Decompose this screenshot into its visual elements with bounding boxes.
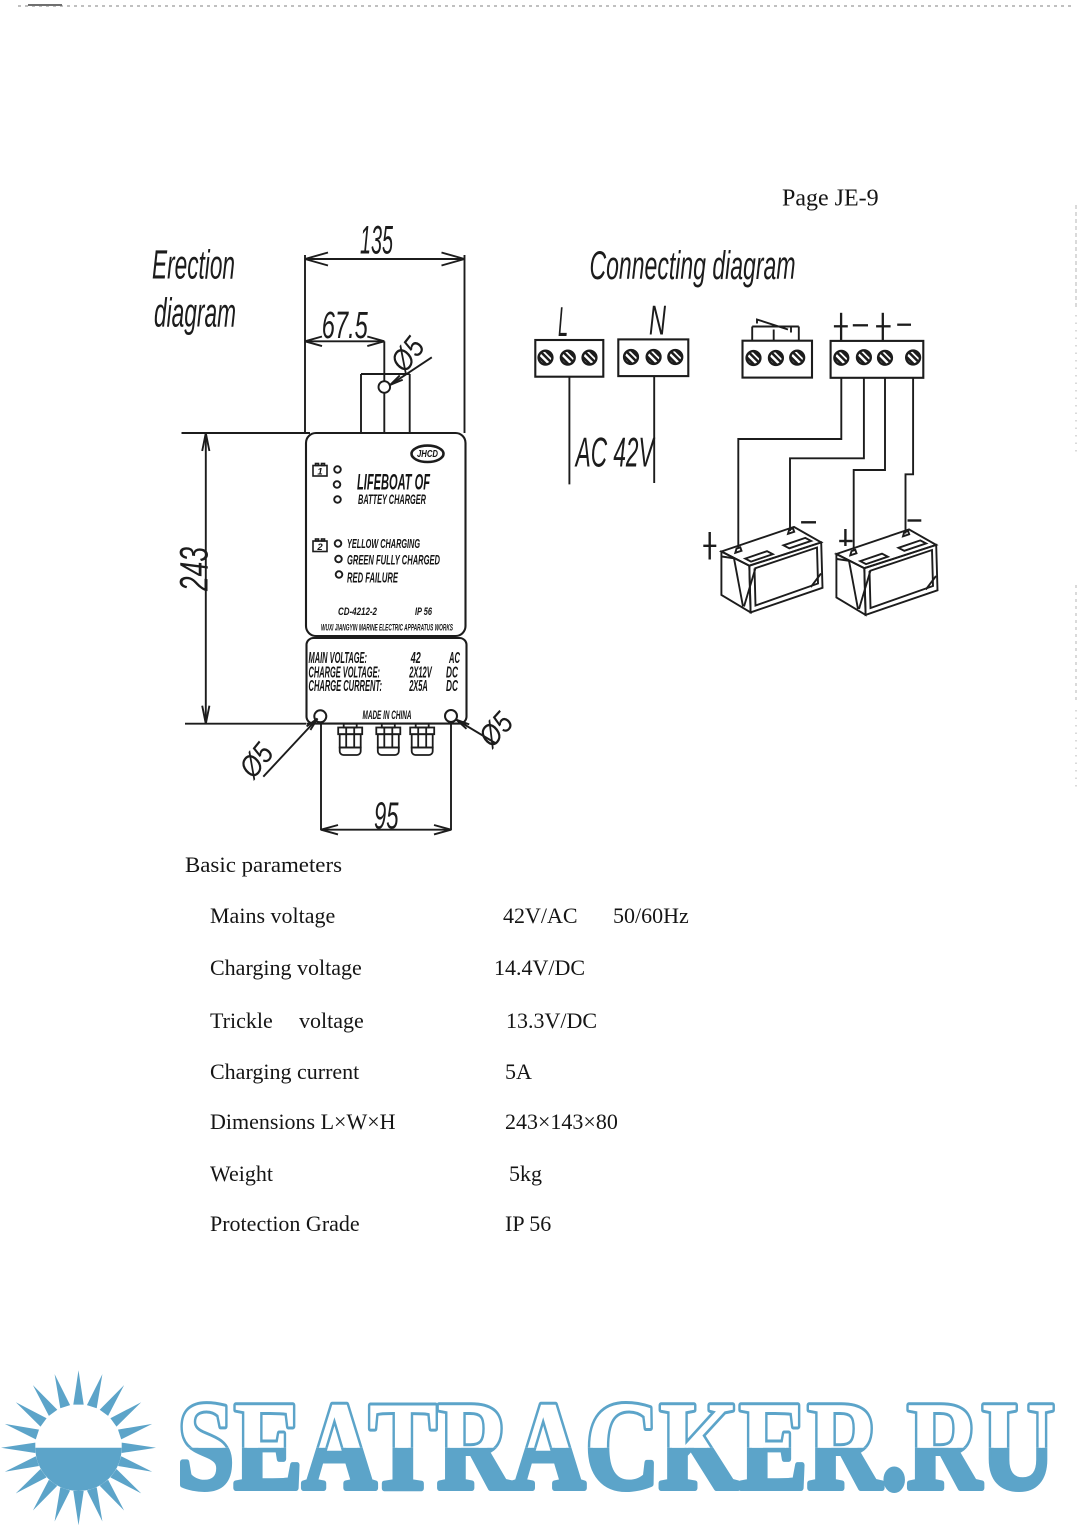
- svg-text:WUXI JIANGYIN MARINE ELECTRIC: WUXI JIANGYIN MARINE ELECTRIC APPARATUS …: [321, 623, 453, 634]
- svg-text:JHCD: JHCD: [417, 449, 438, 460]
- svg-text:DC: DC: [446, 678, 458, 695]
- svg-text:Weight: Weight: [210, 1161, 273, 1186]
- svg-text:RED FAILURE: RED FAILURE: [347, 570, 399, 587]
- svg-text:135: 135: [360, 219, 393, 263]
- svg-text:67.5: 67.5: [322, 305, 369, 347]
- svg-text:Charging current: Charging current: [210, 1059, 359, 1084]
- svg-text:YELLOW CHARGING: YELLOW CHARGING: [347, 537, 420, 551]
- svg-text:13.3V/DC: 13.3V/DC: [506, 1008, 597, 1033]
- svg-text:Ø5: Ø5: [233, 737, 281, 785]
- svg-text:AC 42V: AC 42V: [574, 429, 656, 476]
- svg-text:Erection: Erection: [152, 242, 235, 288]
- svg-text:Connecting diagram: Connecting diagram: [590, 244, 796, 288]
- svg-text:BATTEY CHARGER: BATTEY CHARGER: [358, 491, 426, 507]
- svg-text:2X5A: 2X5A: [409, 678, 428, 695]
- svg-text:5kg: 5kg: [509, 1161, 542, 1186]
- svg-text:42V/AC: 42V/AC: [503, 903, 578, 928]
- svg-text:IP 56: IP 56: [415, 606, 433, 618]
- svg-text:CHARGE CURRENT:: CHARGE CURRENT:: [309, 678, 383, 695]
- svg-text:95: 95: [374, 795, 399, 837]
- svg-text:243: 243: [173, 547, 217, 592]
- svg-text:50/60Hz: 50/60Hz: [613, 903, 689, 928]
- svg-text:Page JE-9: Page JE-9: [782, 186, 879, 212]
- svg-text:GREEN FULLY CHARGED: GREEN FULLY CHARGED: [347, 552, 440, 568]
- svg-text:CD-4212-2: CD-4212-2: [338, 606, 377, 618]
- svg-text:Dimensions L×W×H: Dimensions L×W×H: [210, 1109, 396, 1134]
- svg-text:Basic parameters: Basic parameters: [185, 852, 342, 877]
- svg-text:14.4V/DC: 14.4V/DC: [494, 955, 585, 980]
- svg-text:MADE IN CHINA: MADE IN CHINA: [363, 710, 412, 722]
- svg-text:L: L: [558, 298, 568, 345]
- svg-text:Mains voltage: Mains voltage: [210, 903, 335, 928]
- svg-text:Ø5: Ø5: [472, 706, 520, 754]
- svg-text:Ø5: Ø5: [384, 331, 432, 379]
- svg-text:Protection Grade: Protection Grade: [210, 1211, 360, 1236]
- svg-text:voltage: voltage: [299, 1008, 364, 1033]
- svg-text:IP 56: IP 56: [505, 1211, 551, 1236]
- svg-text:1: 1: [317, 467, 322, 478]
- svg-text:N: N: [649, 297, 666, 344]
- svg-text:Charging voltage: Charging voltage: [210, 955, 362, 980]
- svg-text:243×143×80: 243×143×80: [505, 1109, 618, 1134]
- svg-text:5A: 5A: [505, 1059, 532, 1084]
- svg-text:2: 2: [316, 542, 323, 553]
- svg-text:Trickle: Trickle: [210, 1008, 273, 1033]
- svg-text:diagram: diagram: [154, 290, 236, 336]
